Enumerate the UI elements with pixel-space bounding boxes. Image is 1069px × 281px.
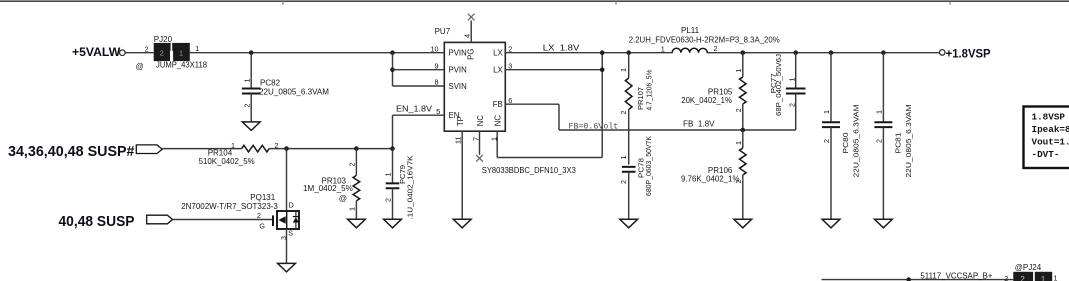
svg-text:@: @ xyxy=(136,62,144,71)
inductor L11 (PL11) xyxy=(629,26,780,57)
svg-text:FB 1.8V: FB 1.8V xyxy=(683,119,715,128)
junction node PC81 xyxy=(881,50,886,55)
svg-text:2: 2 xyxy=(257,211,261,220)
svg-text:2: 2 xyxy=(160,49,164,58)
note box 1.8VSP xyxy=(1024,107,1069,169)
svg-text:1: 1 xyxy=(619,68,628,72)
svg-text:PR105: PR105 xyxy=(708,87,733,96)
svg-text:NC: NC xyxy=(476,115,485,127)
svg-text:1: 1 xyxy=(195,44,199,53)
svg-text:2: 2 xyxy=(619,180,628,184)
svg-text:1M_0402_5%: 1M_0402_5% xyxy=(303,184,353,193)
svg-text:PC81: PC81 xyxy=(893,133,902,154)
IC U1 PU7 SY8033 body xyxy=(431,27,577,175)
svg-text:4.7_1206_5%: 4.7_1206_5% xyxy=(644,69,653,111)
svg-text:1: 1 xyxy=(384,173,393,177)
svg-text:FB=0.6Volt: FB=0.6Volt xyxy=(569,122,619,132)
capacitor C77 (PC77) xyxy=(769,53,806,130)
resistor R104 (PR104) xyxy=(199,141,279,166)
junction node PC80 xyxy=(829,50,834,55)
svg-text:PG: PG xyxy=(466,49,475,60)
svg-text:EN_1.8V: EN_1.8V xyxy=(396,105,433,114)
svg-text:1: 1 xyxy=(348,207,357,211)
junction node LX b xyxy=(600,67,605,72)
svg-text:+5VALW: +5VALW xyxy=(72,45,121,59)
wire VCCSAP xyxy=(822,279,1014,281)
wire EN to pin 5 xyxy=(393,114,445,116)
junction node PVIN bus xyxy=(390,50,395,55)
ground (PC81) xyxy=(875,219,893,228)
junction node PC77 top xyxy=(793,50,798,55)
wire PVIN bus vertical xyxy=(392,53,394,86)
svg-text:S: S xyxy=(288,228,293,237)
svg-text:2: 2 xyxy=(874,139,883,143)
resistor R103 (PR103) xyxy=(303,149,360,220)
ground (PR103) xyxy=(348,219,366,228)
svg-text:-DVT-: -DVT- xyxy=(1032,149,1060,160)
junction node PR103 xyxy=(354,146,359,151)
junction node PR107 top xyxy=(626,50,631,55)
svg-text:11: 11 xyxy=(453,137,462,144)
ground (PC80) xyxy=(822,219,840,228)
junction node PC79/EN xyxy=(390,146,395,151)
svg-text:2: 2 xyxy=(384,198,393,202)
wire +5VALW to PJ20 xyxy=(125,52,154,54)
svg-text:20K_0402_1%: 20K_0402_1% xyxy=(681,96,732,105)
svg-text:9.76K_0402_1%: 9.76K_0402_1% xyxy=(681,175,740,184)
resistor R105 (PR105) xyxy=(681,53,746,130)
svg-text:1: 1 xyxy=(619,156,628,160)
wire FB from pin 6 xyxy=(505,103,559,105)
svg-text:2: 2 xyxy=(1004,274,1008,281)
svg-text:TP: TP xyxy=(456,116,465,126)
svg-text:1: 1 xyxy=(734,69,743,73)
svg-text:Ipeak=8A: Ipeak=8A xyxy=(1032,124,1069,135)
svg-text:2: 2 xyxy=(1020,275,1025,281)
jumper PJ24 xyxy=(1013,263,1057,281)
svg-text:68P_0402_50V6J: 68P_0402_50V6J xyxy=(774,54,783,116)
svg-text:10: 10 xyxy=(431,44,439,53)
svg-text:.1U_0402_16V7K: .1U_0402_16V7K xyxy=(405,155,414,219)
wire pin1 to LX xyxy=(497,157,602,159)
svg-text:1: 1 xyxy=(179,49,183,58)
svg-text:+1.8VSP: +1.8VSP xyxy=(946,47,991,61)
svg-text:9: 9 xyxy=(435,61,439,70)
junction node VCCSAP xyxy=(906,277,911,281)
svg-text:PJ20: PJ20 xyxy=(154,35,173,44)
junction node LX a xyxy=(600,50,605,55)
svg-text:2: 2 xyxy=(348,163,357,167)
capacitor C78 (PC78) xyxy=(619,136,653,219)
wire to pin 9 xyxy=(393,69,445,71)
jumper PJ20 xyxy=(136,35,208,71)
svg-text:51117_VCCSAP_B+: 51117_VCCSAP_B+ xyxy=(920,271,992,280)
resistor R106 (PR106) xyxy=(681,130,746,219)
svg-text:PL11: PL11 xyxy=(681,26,700,35)
svg-text:PVIN: PVIN xyxy=(449,66,467,75)
svg-text:4: 4 xyxy=(462,34,471,38)
ground (pin 11) xyxy=(453,219,471,228)
svg-text:40,48 SUSP: 40,48 SUSP xyxy=(59,214,135,230)
svg-text:510K_0402_5%: 510K_0402_5% xyxy=(199,157,255,166)
svg-text:1: 1 xyxy=(243,79,252,83)
wire PJ20 to IC PVIN xyxy=(190,52,444,54)
transistor Q131 (PQ131) xyxy=(181,149,299,264)
capacitor C82 (PC82) xyxy=(242,53,329,122)
svg-text:JUMP_43X118: JUMP_43X118 xyxy=(156,61,208,70)
svg-text:PC80: PC80 xyxy=(841,133,850,154)
wire LX rail xyxy=(505,52,939,54)
svg-text:LX: LX xyxy=(493,49,503,58)
svg-text:1: 1 xyxy=(822,110,831,114)
svg-text:G: G xyxy=(259,221,265,230)
wire to pin 8 xyxy=(393,85,445,87)
capacitor C79 (PC79) xyxy=(384,149,415,220)
pin 1 NC stub xyxy=(496,131,498,157)
svg-text:8: 8 xyxy=(435,78,439,87)
svg-text:@PJ24: @PJ24 xyxy=(1015,263,1042,272)
svg-text:2.2UH_FDVE0630-H-2R2M=P3_8.3A_: 2.2UH_FDVE0630-H-2R2M=P3_8.3A_20% xyxy=(629,35,780,44)
svg-text:Vout=1.8: Vout=1.8 xyxy=(1032,137,1069,148)
svg-text:2: 2 xyxy=(145,44,149,53)
svg-text:22U_0805_6.3VAM: 22U_0805_6.3VAM xyxy=(259,88,329,97)
capacitor C81 (PC81) xyxy=(874,53,913,220)
svg-text:680P_0603_50V7K: 680P_0603_50V7K xyxy=(644,136,653,196)
svg-text:1: 1 xyxy=(874,110,883,114)
svg-text:PU7: PU7 xyxy=(435,27,451,36)
wire LX pin 3 xyxy=(505,69,602,71)
svg-text:2: 2 xyxy=(714,44,718,53)
sheet top border xyxy=(0,0,1069,2)
pin 7 NC stub xyxy=(479,131,481,155)
svg-text:PVIN: PVIN xyxy=(449,49,467,58)
svg-text:2: 2 xyxy=(243,104,252,108)
connector SUSP# xyxy=(136,145,162,154)
capacitor C80 (PC80) xyxy=(822,53,861,220)
svg-text:D: D xyxy=(289,200,294,209)
svg-text:1: 1 xyxy=(1054,273,1058,281)
svg-text:2: 2 xyxy=(787,103,796,107)
pin 11 TP stub to ground xyxy=(461,131,463,219)
connector SUSP xyxy=(147,215,173,224)
ground (PQ131) xyxy=(278,263,296,272)
svg-text:2: 2 xyxy=(822,139,831,143)
junction node PC82 xyxy=(249,50,254,55)
svg-text:22U_0805_6.3VAM: 22U_0805_6.3VAM xyxy=(852,104,861,177)
junction node drain xyxy=(284,146,289,151)
svg-text:@: @ xyxy=(339,194,347,203)
svg-text:1.8VSP: 1.8VSP xyxy=(1032,112,1066,123)
svg-text:1: 1 xyxy=(787,78,796,82)
svg-text:LX: LX xyxy=(493,66,503,75)
net +1.8VSP terminal xyxy=(939,50,945,56)
junction node PR105 top xyxy=(741,50,746,55)
svg-text:1: 1 xyxy=(1041,275,1046,281)
ground (PR106) xyxy=(734,219,752,228)
junction node FB divider xyxy=(741,128,746,133)
wire PR104 to PC79 xyxy=(269,148,392,150)
wire EN vertical xyxy=(392,115,394,148)
svg-text:1: 1 xyxy=(661,44,665,53)
ground (PC82) xyxy=(242,122,260,130)
svg-text:FB: FB xyxy=(493,100,503,109)
svg-text:34,36,40,48 SUSP#: 34,36,40,48 SUSP# xyxy=(8,144,135,160)
resistor R107 (PR107) xyxy=(619,53,654,165)
svg-text:1: 1 xyxy=(734,141,743,145)
svg-text:SVIN: SVIN xyxy=(449,82,467,91)
svg-text:PC82: PC82 xyxy=(260,78,281,87)
svg-text:22U_0805_6.3VAM: 22U_0805_6.3VAM xyxy=(904,104,913,177)
no-connect X pin 4 xyxy=(468,14,475,21)
svg-text:5: 5 xyxy=(436,107,440,116)
wire gate xyxy=(173,219,273,221)
wire SUSP# to PR104 xyxy=(162,148,241,150)
pin 4 PG stub xyxy=(470,21,472,43)
svg-text:NC: NC xyxy=(494,115,503,127)
ground (PC79) xyxy=(384,219,402,228)
svg-text:2: 2 xyxy=(619,111,628,115)
svg-text:SY8033BDBC_DFN10_3X3: SY8033BDBC_DFN10_3X3 xyxy=(482,166,577,175)
ground (PC78) xyxy=(620,219,638,228)
svg-text:2: 2 xyxy=(734,108,743,112)
no-connect X pin 7 xyxy=(476,155,483,162)
svg-text:LX 1.8V: LX 1.8V xyxy=(543,43,580,52)
svg-text:2N7002W-T/R7_SOT323-3: 2N7002W-T/R7_SOT323-3 xyxy=(181,202,278,211)
